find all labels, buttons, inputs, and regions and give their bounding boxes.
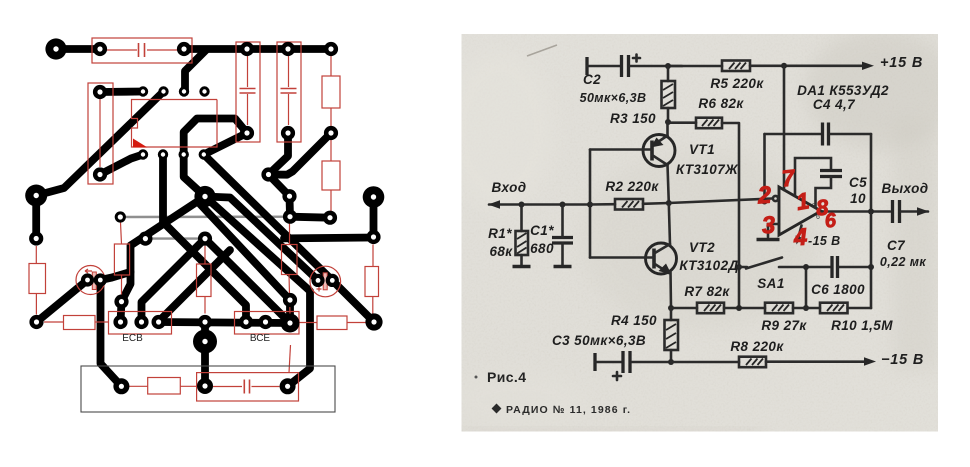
wire C2 left <box>587 65 620 68</box>
silkscreen resistor outline col1 lower <box>322 161 340 190</box>
transistor VT1 <box>643 135 675 167</box>
wire trace gray2 to C-pad <box>142 239 206 322</box>
wire trace C1 top <box>56 45 100 53</box>
silkscreen transistor outline ECB <box>109 312 172 335</box>
arrowhead +15V <box>862 62 874 70</box>
wire jumper gray 1 <box>120 215 290 218</box>
pad special 1 <box>281 314 300 333</box>
svg-text:C4 4,7: C4 4,7 <box>813 97 856 112</box>
pad 14 <box>323 211 337 225</box>
caption diamond <box>492 404 502 414</box>
wire trace R left to IC <box>100 88 143 96</box>
wire R3 bottom <box>667 108 670 122</box>
silkscreen electrolytic cap2 circle <box>310 266 341 297</box>
svg-text:SA1: SA1 <box>757 276 784 291</box>
pad large 2 <box>25 185 47 207</box>
node dot VT1 emitter <box>665 119 671 125</box>
resistor R10 <box>820 303 848 314</box>
wire C1 top <box>561 205 564 238</box>
pad 18 <box>29 315 43 329</box>
capacitor C4 <box>823 123 829 146</box>
pad 5 <box>324 42 338 56</box>
ground R1 <box>513 265 531 269</box>
svg-text:R1*: R1* <box>488 226 512 241</box>
arrowhead -15V <box>864 357 876 365</box>
node dot input-C1 <box>560 202 566 208</box>
op-amp DA1 body <box>779 187 821 235</box>
silkscreen col1 netlines <box>330 56 332 211</box>
svg-text:50мк×6,3В: 50мк×6,3В <box>580 91 647 105</box>
wire trace IC pin7 to hub <box>184 155 205 197</box>
pad large 3 <box>194 186 215 207</box>
svg-text:4: 4 <box>792 224 808 252</box>
silkscreen mid-col netlines <box>121 223 122 297</box>
pad special 5 <box>280 378 296 394</box>
silkscreen bottom cap plates <box>244 380 249 394</box>
wire R2 left <box>590 203 615 206</box>
pad 9 <box>281 126 295 140</box>
switch SA1 blade <box>746 258 782 269</box>
wire trace IC pin5 left <box>100 155 143 175</box>
ground C1 <box>554 265 572 269</box>
silkscreen resistor outline c289 <box>282 245 298 275</box>
wire rail R3node to R5 <box>668 65 722 68</box>
node dot C3R4 <box>668 359 674 365</box>
svg-text:2: 2 <box>756 182 773 210</box>
svg-text:R7 82к: R7 82к <box>684 284 730 299</box>
silkscreen IC pin1 triangle <box>133 139 148 148</box>
wire C3 left <box>595 361 622 364</box>
wire VT1 emitter up <box>666 122 669 136</box>
pad IC pin 7 <box>179 149 189 159</box>
board outline bottom box <box>81 366 335 412</box>
silkscreen capacitor outline mid1 <box>236 42 260 142</box>
wire SA1 left stub <box>739 266 747 269</box>
svg-text:VT1: VT1 <box>689 142 715 157</box>
silkscreen resistor outline mid-col <box>114 244 129 275</box>
wire VT2 base <box>590 256 654 259</box>
silkscreen resistor outline left-vert <box>88 83 113 184</box>
silkscreen cap1 netline <box>247 56 249 125</box>
wire trace left pad to cap1 <box>37 280 88 322</box>
wire R7 to R9 <box>724 307 765 310</box>
wire C4 left vertical <box>763 134 766 202</box>
node dot rail-pin7 <box>781 63 787 69</box>
silkscreen bottom cap netline <box>213 386 280 388</box>
wire pin3 <box>768 224 779 237</box>
scan light patch left <box>445 50 555 210</box>
node dot emitters <box>666 200 672 206</box>
pad 11 <box>261 167 275 181</box>
node dot R9R10 <box>803 305 809 311</box>
pad 3 <box>240 42 254 56</box>
wire SA1 right <box>779 266 806 269</box>
svg-text:680: 680 <box>530 241 554 256</box>
wire output <box>821 210 890 213</box>
wire trace ECB-BCE row <box>159 322 290 323</box>
svg-text:C1*: C1* <box>530 223 554 238</box>
svg-text:Выход: Выход <box>881 181 928 196</box>
silkscreen cap netline <box>107 49 177 51</box>
pad special 3 <box>113 378 129 394</box>
silkscreen resistor outline bottom-left-h <box>64 316 96 330</box>
pad IC pin 3 <box>179 86 189 96</box>
wire R8 to arrow <box>766 360 870 363</box>
silkscreen bbh netlines <box>129 385 197 387</box>
silkscreen resistor netline <box>99 99 101 167</box>
wire R4 bottom <box>670 350 673 362</box>
wire C6 left <box>806 266 832 269</box>
wire R6 right to SA1 bus <box>722 123 739 308</box>
node dot SA1 left <box>736 264 742 270</box>
svg-text:-15 В: -15 В <box>808 234 841 248</box>
wire trace branch to cap1 right <box>100 272 130 280</box>
pad 27 <box>366 230 380 244</box>
pad large 1 <box>45 38 66 59</box>
caption dot <box>475 376 478 379</box>
wire trace pad290 link <box>286 300 294 323</box>
wire R1 top <box>520 205 523 232</box>
svg-text:VT2: VT2 <box>689 240 715 255</box>
svg-text:68к: 68к <box>489 244 513 259</box>
node dot SA1 bus bottom <box>736 305 742 311</box>
wire trace IC to corner pad <box>36 92 163 196</box>
svg-text:C2: C2 <box>583 72 601 87</box>
wire trace cap1 to bottom <box>100 280 121 386</box>
resistor R7 <box>697 303 724 314</box>
wire R6 left <box>668 121 696 124</box>
wire trace big bottom pad down <box>201 342 209 387</box>
node dot output-C4 <box>868 209 874 215</box>
svg-text:C5: C5 <box>849 175 867 190</box>
pad special 4 <box>197 378 213 394</box>
silkscreen resistor outline bottom-box-h <box>148 378 181 395</box>
pad 10 <box>324 126 338 140</box>
svg-text:R3 150: R3 150 <box>610 111 656 126</box>
silkscreen resistor outline c205 <box>197 264 212 297</box>
node dot input-bases <box>587 202 593 208</box>
wire trace right horizontal <box>284 234 374 243</box>
node dot input-R1 <box>519 202 525 208</box>
wire R4 top <box>670 308 673 320</box>
silkscreen cap2 plate bar <box>323 273 327 290</box>
pad 19 <box>114 295 128 309</box>
wire C4 right vertical <box>870 134 873 212</box>
capacitor C1 <box>552 238 573 244</box>
silkscreen cap2 netline <box>288 56 290 125</box>
pad 4 <box>281 42 295 56</box>
silkscreen cap2 plates <box>281 89 297 94</box>
svg-text:C6 1800: C6 1800 <box>811 282 865 297</box>
wire to op-amp in- <box>669 199 772 204</box>
op-amp inverting input circle <box>773 196 778 201</box>
wire C4 top left <box>765 133 821 136</box>
wire R10 right <box>848 307 872 310</box>
svg-text:C3 50мк×6,3В: C3 50мк×6,3В <box>552 333 646 348</box>
svg-text:РАДИО № 11, 1986 г.: РАДИО № 11, 1986 г. <box>506 404 631 416</box>
wire trace pad short diagonal <box>269 175 290 197</box>
pad cap 3 <box>311 274 324 287</box>
wire input vertical <box>589 150 592 258</box>
pad IC pin 6 <box>158 149 168 159</box>
pad 15 <box>138 232 152 246</box>
svg-text:Рис.4: Рис.4 <box>487 369 526 385</box>
silkscreen right-col netlines <box>372 245 374 314</box>
pad 7 <box>93 167 107 181</box>
arrowhead input <box>488 200 500 208</box>
capacitor C2 terminal bar <box>585 57 588 75</box>
wire VT1 collector down <box>668 165 669 203</box>
silkscreen cap1 minus arrow <box>85 269 92 273</box>
svg-text:10: 10 <box>850 191 866 206</box>
svg-text:R9 27к: R9 27к <box>761 318 807 333</box>
silkscreen resistor outline col1 upper <box>322 76 340 108</box>
wire trace IC angular <box>184 119 247 155</box>
svg-text:+15 В: +15 В <box>880 55 923 71</box>
wire R7 left <box>671 307 697 310</box>
wire trace hub to pad290 <box>200 204 290 300</box>
scan bottom edge shade <box>462 428 762 432</box>
wire trace mid pad link <box>201 322 209 342</box>
svg-text:R2 220к: R2 220к <box>605 179 659 194</box>
wire C1 bottom <box>561 243 564 267</box>
pad 22 <box>134 315 148 329</box>
svg-text:R4 150: R4 150 <box>611 313 657 328</box>
wire rail to R8 <box>671 361 739 364</box>
pad cap 1 <box>81 273 94 286</box>
silkscreen cap symbol <box>139 43 145 57</box>
pad special 2 <box>365 313 382 330</box>
wire jumper gray 2 <box>145 237 205 239</box>
wire rail R5 to arrow <box>750 65 868 68</box>
wire pin7 <box>783 66 786 190</box>
capacitor C2 <box>622 55 641 78</box>
arrowhead pin4 <box>796 236 802 245</box>
silkscreen transistor outline BCE <box>235 312 300 335</box>
silkscreen capacitor outline mid2 <box>277 42 301 142</box>
resistor R3 <box>662 81 676 108</box>
pad 13 <box>283 210 297 224</box>
pad 1 <box>93 42 107 56</box>
silkscreen blh netlines <box>44 321 109 323</box>
wire R9 right <box>793 307 820 310</box>
resistor R1 <box>516 231 529 255</box>
capacitor C3 <box>613 351 630 380</box>
node dot C6 left <box>803 264 809 270</box>
wire trace gray2 to BCE pad <box>205 239 290 323</box>
scan scratch mark <box>527 45 557 56</box>
pad 12 <box>282 189 296 203</box>
wire trace pad3 to IC pin <box>185 50 206 92</box>
wire trace hub to bottom pad <box>205 197 310 387</box>
wire trace pad short vertical <box>286 196 294 217</box>
node dot VT2 emitter <box>668 305 674 311</box>
wire trace big pad right down <box>370 197 378 237</box>
wire trace cap-bottom to IC pin8 <box>204 133 247 155</box>
wire feedback bus <box>870 212 873 309</box>
pad large 4 <box>193 330 217 354</box>
pad 20 <box>113 315 127 329</box>
svg-text:3: 3 <box>761 212 777 240</box>
silkscreen cap2 plus <box>317 287 322 292</box>
silkscreen capacitor outline top-left <box>92 38 192 63</box>
svg-text:R10 1,5М: R10 1,5М <box>831 318 893 333</box>
silkscreen electrolytic cap1 circle <box>76 266 105 295</box>
wire C6 right <box>839 266 871 269</box>
pad special 6 <box>115 211 126 222</box>
silkscreen cap1 plate bar <box>92 272 96 290</box>
wire trace corner pad stub <box>32 196 40 239</box>
resistor R8 <box>739 357 766 368</box>
capacitor C6 <box>832 256 838 278</box>
svg-text:ВСЕ: ВСЕ <box>250 333 271 344</box>
transistor VT2 <box>646 243 677 275</box>
wire VT2 emitter down <box>669 272 672 308</box>
wire VT1 base <box>590 148 652 151</box>
silkscreen cap1 plates <box>240 89 256 94</box>
wire trace hub stub to cap2 <box>205 197 318 281</box>
pad 6 <box>93 85 107 99</box>
capacitor C3 terminal bar <box>593 353 596 371</box>
wire pin4 lead <box>798 226 802 242</box>
svg-text:КТ3102Д: КТ3102Д <box>679 258 738 273</box>
node dot in- C4 <box>762 199 768 205</box>
pad 17 <box>29 231 43 245</box>
wire trace cap pad chain <box>269 133 289 175</box>
svg-text:−15 В: −15 В <box>881 352 924 368</box>
resistor R9 <box>765 303 793 314</box>
arrowhead output <box>917 207 929 215</box>
pad IC pin 8 <box>199 149 209 159</box>
wire output arrow <box>901 210 928 213</box>
node dot C6 bus <box>868 264 874 270</box>
wire trace gray1 end right <box>290 217 330 218</box>
pad large 5 <box>363 186 385 208</box>
wire trace res to mid bus <box>269 133 332 175</box>
silkscreen resistor outline right-col <box>365 267 379 297</box>
wire trace top bus <box>184 45 331 53</box>
scan patches group <box>445 30 955 432</box>
resistor R5 <box>722 61 750 72</box>
svg-text:R5 220к: R5 220к <box>710 76 764 91</box>
pad 21 <box>283 293 297 307</box>
wire C2 to R3 node <box>630 65 682 68</box>
wire R1 bottom <box>520 255 523 267</box>
silkscreen brh netlines <box>299 322 366 324</box>
svg-text:0,22 мк: 0,22 мк <box>880 255 926 269</box>
wire trace IC pin6 to B-pad <box>163 155 246 323</box>
svg-text:R6 82к: R6 82к <box>698 96 744 111</box>
silkscreen resistor outline left-col <box>29 264 46 294</box>
silkscreen capacitor outline bottom <box>197 373 299 401</box>
wire trace to ECB right pad <box>159 250 230 322</box>
svg-text:ЕСВ: ЕСВ <box>122 333 143 344</box>
capacitor C5 <box>820 171 842 177</box>
pad IC pin 5 <box>138 149 148 159</box>
silkscreen c205 netlines <box>204 246 206 314</box>
pad IC pin 2 <box>158 86 168 96</box>
pad 26 <box>258 315 272 329</box>
silkscreen short red link <box>289 345 291 373</box>
pad cap 4 <box>326 274 339 287</box>
pad cap 2 <box>94 273 107 286</box>
scan ghost text patch right column <box>893 120 938 370</box>
wire C3 to R4 <box>632 361 671 364</box>
pad 24 <box>198 315 212 329</box>
pad 2 <box>177 42 191 56</box>
node dot rail-C2R3 <box>665 63 671 69</box>
wire C4 top right <box>830 133 871 136</box>
svg-text:R8 220к: R8 220к <box>730 339 784 354</box>
wire R3 top <box>667 66 670 81</box>
silkscreen IC outline <box>132 100 218 148</box>
wire VT2 collector up <box>669 203 670 245</box>
silkscreen resistor outline bottom-right-h <box>317 316 347 330</box>
scan ghost text patch upper right <box>805 30 955 150</box>
wire trace hub to E-pad <box>121 197 206 323</box>
ground pin3 <box>757 238 780 242</box>
wire R2 right <box>643 202 669 205</box>
scan ghost patch mid <box>580 150 820 330</box>
wire C6 node down <box>805 267 808 308</box>
pad IC pin 1 <box>138 86 148 96</box>
capacitor C7 <box>893 200 900 223</box>
wire input line <box>489 203 590 206</box>
wire C5 right <box>816 177 832 208</box>
pad 25 <box>239 315 253 329</box>
pad IC pin 4 <box>199 86 209 96</box>
wire trace long diagonal Q <box>204 155 374 323</box>
scan light patch bottom <box>450 370 590 430</box>
svg-text:C7: C7 <box>887 238 906 253</box>
pad 8 <box>240 126 254 140</box>
scan paper noise <box>462 34 939 432</box>
svg-text:КТ3107Ж: КТ3107Ж <box>676 162 739 177</box>
scan background <box>462 34 939 432</box>
pad 16 <box>198 232 212 246</box>
silkscreen c289 netlines <box>289 224 290 316</box>
resistor R2 <box>615 199 643 210</box>
svg-text:DA1 К553УД2: DA1 К553УД2 <box>797 83 889 98</box>
resistor R4 <box>665 320 679 350</box>
resistor R6 <box>696 118 722 129</box>
wire C5 left <box>795 158 831 196</box>
pad 23 <box>152 315 166 329</box>
silkscreen left-col netlines <box>35 246 37 315</box>
svg-text:Вход: Вход <box>492 180 527 195</box>
